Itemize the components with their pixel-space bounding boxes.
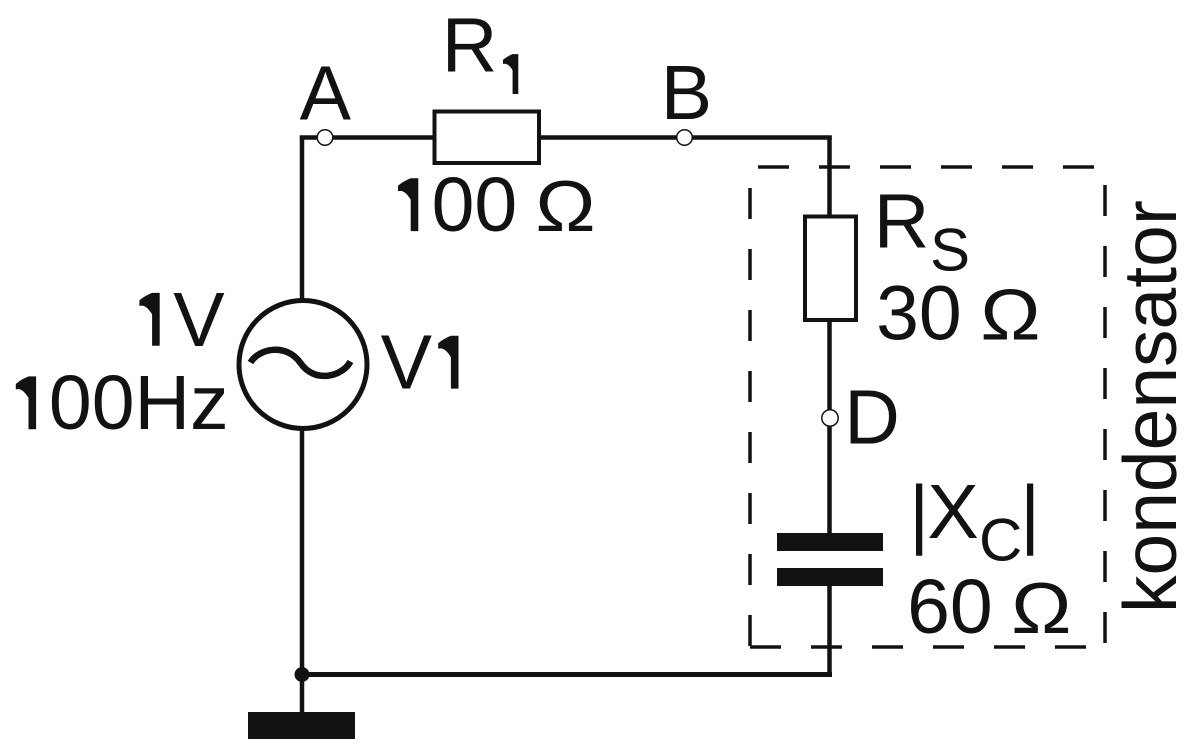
svg-text:00Hz: 00Hz xyxy=(49,360,229,446)
wire ground stub xyxy=(300,675,305,715)
source value label 1V 100Hz xyxy=(139,293,159,346)
wire node D to capacitor xyxy=(827,424,832,535)
ground symbol xyxy=(248,712,355,739)
voltage source V1 circle xyxy=(239,301,367,429)
wire RS to node D xyxy=(827,320,832,412)
voltage source V1 sine wave xyxy=(251,350,351,376)
svg-text:A: A xyxy=(300,51,352,137)
value label 100 Ohm xyxy=(398,178,418,231)
wire left vertical source bottom xyxy=(300,429,305,676)
svg-text:B: B xyxy=(661,50,712,136)
wire bottom horizontal xyxy=(302,672,832,677)
node A terminal circle xyxy=(317,130,333,146)
svg-text:00: 00 xyxy=(432,162,518,248)
capacitor C top plate xyxy=(777,533,883,551)
wire top-left segment A to R1 xyxy=(300,135,434,140)
resistor R1 body xyxy=(435,112,540,164)
dashed box kondensator outline left edge xyxy=(748,167,752,647)
node D terminal circle xyxy=(822,410,838,426)
dashed box kondensator outline bottom edge xyxy=(750,645,1105,649)
svg-text:|: | xyxy=(1020,471,1040,557)
svg-text:Ω: Ω xyxy=(535,165,595,246)
wire R1 to B to top-right corner xyxy=(540,135,832,140)
wire left vertical source top xyxy=(300,136,305,302)
svg-text:X: X xyxy=(927,469,978,555)
svg-text:|: | xyxy=(909,471,929,557)
svg-text:V: V xyxy=(173,277,225,363)
svg-text:Ω: Ω xyxy=(1011,568,1071,649)
wire right vertical B corner to RS xyxy=(827,136,832,217)
svg-text:60: 60 xyxy=(907,564,993,650)
svg-text:R: R xyxy=(442,3,498,89)
dashed box kondensator outline right edge xyxy=(1103,167,1107,647)
node B terminal circle xyxy=(677,130,693,146)
junction dot xyxy=(295,667,310,682)
svg-text:D: D xyxy=(844,375,900,461)
svg-text:V: V xyxy=(381,320,433,406)
dashed box kondensator outline top edge xyxy=(750,165,1105,169)
svg-text:R: R xyxy=(874,179,930,265)
svg-text:30: 30 xyxy=(876,270,962,356)
resistor RS body xyxy=(805,217,856,321)
svg-text:Ω: Ω xyxy=(980,274,1040,355)
wire capacitor to bottom xyxy=(827,584,832,676)
capacitor C bottom plate xyxy=(777,568,883,586)
svg-text:kondensator: kondensator xyxy=(1108,200,1192,613)
